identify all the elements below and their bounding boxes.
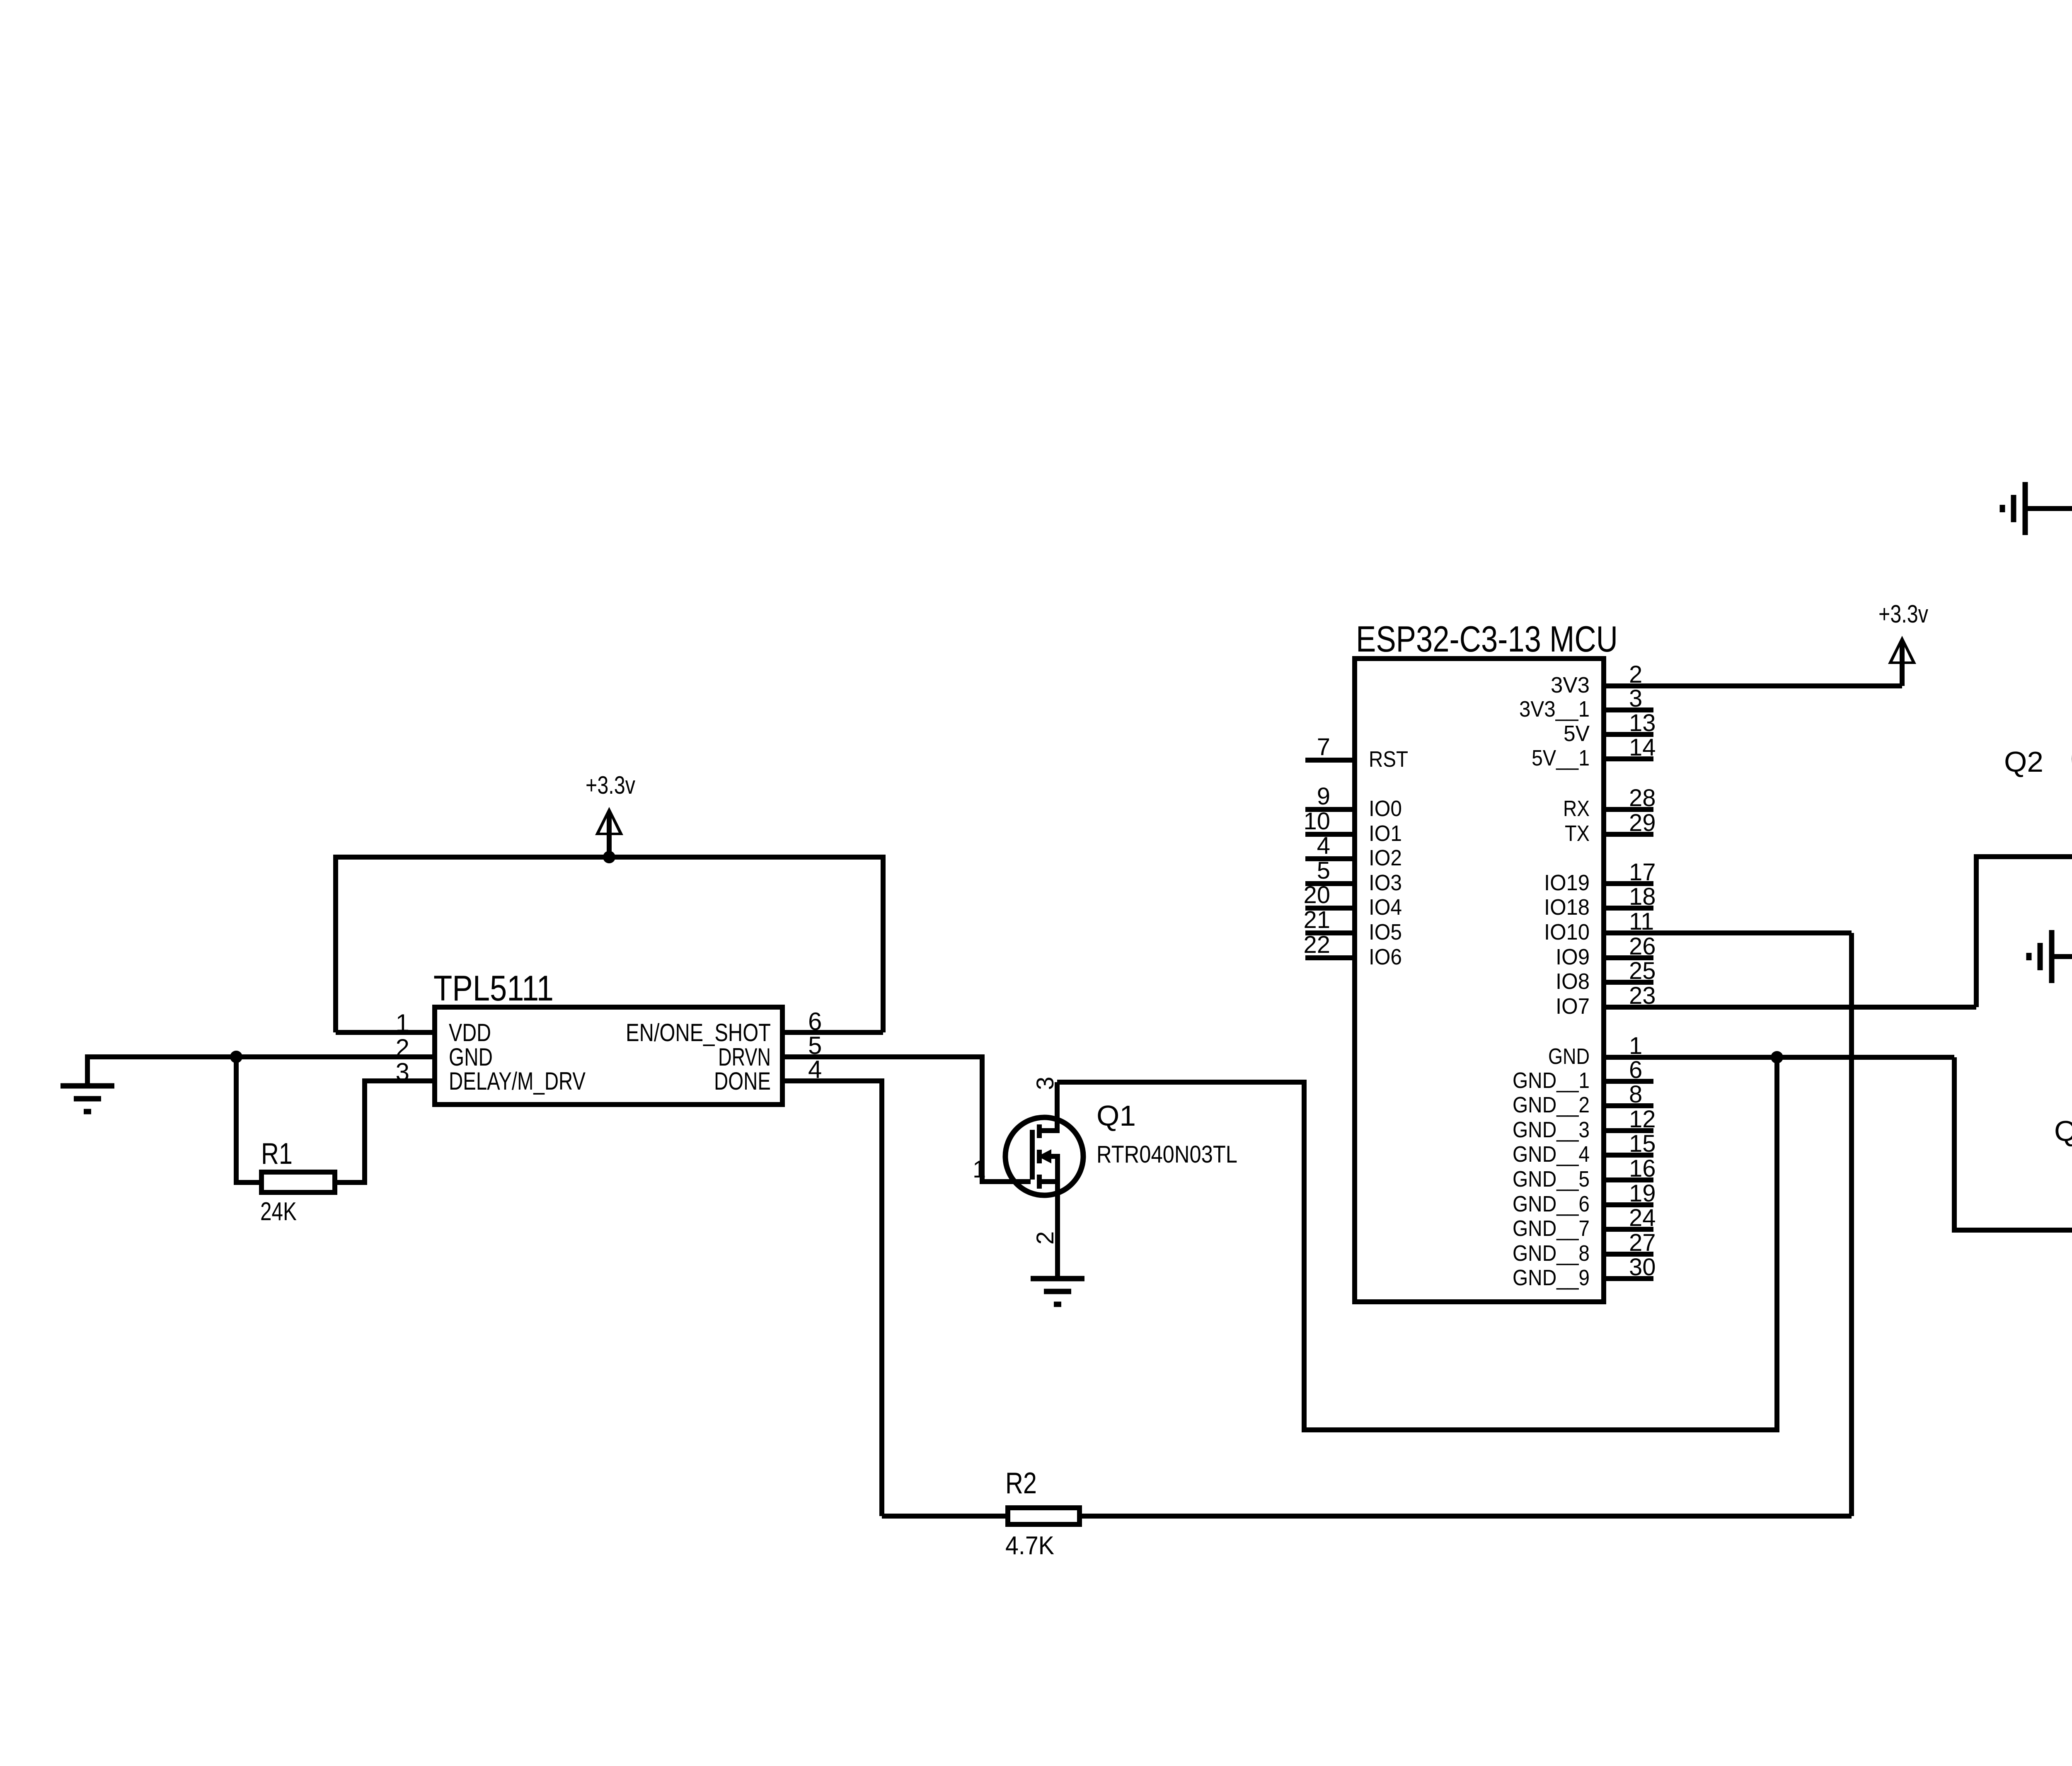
svg-text:RTR040N03TL: RTR040N03TL	[1097, 1141, 1237, 1168]
svg-text:EN/ONE_SHOT: EN/ONE_SHOT	[626, 1019, 771, 1047]
svg-text:Q3: Q3	[2054, 1115, 2072, 1147]
svg-text:14: 14	[1629, 734, 1656, 761]
svg-text:17: 17	[1629, 859, 1656, 886]
svg-text:24: 24	[1629, 1204, 1656, 1231]
svg-text:TX: TX	[1565, 821, 1590, 846]
svg-text:13: 13	[1629, 710, 1656, 736]
svg-text:1: 1	[396, 1009, 409, 1037]
svg-text:IO4: IO4	[1369, 895, 1402, 920]
svg-text:30: 30	[1629, 1254, 1656, 1281]
svg-text:GND__8: GND__8	[1513, 1241, 1590, 1266]
svg-text:IO5: IO5	[1369, 920, 1402, 945]
svg-text:GND__5: GND__5	[1513, 1167, 1590, 1192]
svg-text:6: 6	[1629, 1056, 1642, 1083]
svg-text:29: 29	[1629, 809, 1656, 836]
svg-text:2: 2	[1629, 661, 1642, 688]
svg-text:2: 2	[1032, 1231, 1059, 1245]
svg-text:24K: 24K	[260, 1197, 297, 1226]
svg-text:6: 6	[808, 1008, 822, 1035]
svg-text:28: 28	[1629, 785, 1656, 812]
svg-text:IO0: IO0	[1369, 796, 1402, 821]
svg-text:16: 16	[1629, 1155, 1656, 1182]
svg-text:GND__4: GND__4	[1513, 1142, 1590, 1167]
svg-text:5: 5	[1317, 857, 1330, 884]
svg-text:Q2: Q2	[2004, 746, 2043, 778]
svg-text:3: 3	[1032, 1077, 1059, 1090]
svg-text:R1: R1	[261, 1137, 293, 1170]
svg-text:12: 12	[1629, 1106, 1656, 1133]
svg-text:RST: RST	[1369, 747, 1408, 772]
svg-text:TPL5111: TPL5111	[433, 969, 554, 1008]
svg-text:IO7: IO7	[1556, 994, 1590, 1019]
svg-text:4.7K: 4.7K	[1005, 1531, 1054, 1560]
svg-text:21: 21	[1303, 906, 1330, 933]
svg-text:+3.3v: +3.3v	[1878, 600, 1928, 628]
svg-text:9: 9	[1317, 783, 1330, 810]
svg-text:3: 3	[396, 1058, 409, 1086]
svg-text:DONE: DONE	[714, 1067, 771, 1095]
svg-text:3: 3	[1629, 685, 1642, 712]
svg-text:GND__1: GND__1	[1513, 1068, 1590, 1093]
svg-text:2: 2	[396, 1034, 409, 1062]
svg-text:IO18: IO18	[1544, 895, 1590, 920]
svg-text:23: 23	[1629, 982, 1656, 1009]
svg-text:11: 11	[1629, 908, 1654, 935]
svg-text:IO1: IO1	[1369, 821, 1402, 846]
svg-text:27: 27	[1629, 1229, 1656, 1256]
svg-text:IO10: IO10	[1544, 920, 1590, 945]
svg-text:22: 22	[1303, 931, 1330, 958]
svg-text:IO6: IO6	[1369, 945, 1402, 969]
svg-text:15: 15	[1629, 1130, 1656, 1157]
svg-text:VDD: VDD	[449, 1019, 491, 1047]
svg-text:3V3: 3V3	[1551, 673, 1590, 698]
svg-text:1: 1	[1629, 1032, 1642, 1059]
svg-text:DELAY/M_DRV: DELAY/M_DRV	[449, 1067, 586, 1095]
svg-text:10: 10	[1303, 808, 1330, 835]
svg-text:GND__2: GND__2	[1513, 1093, 1590, 1117]
svg-text:18: 18	[1629, 883, 1656, 910]
svg-text:RX: RX	[1563, 796, 1590, 821]
svg-text:GND__9: GND__9	[1513, 1265, 1590, 1290]
svg-text:IO3: IO3	[1369, 870, 1402, 895]
svg-text:3V3__1: 3V3__1	[1519, 697, 1590, 722]
svg-text:26: 26	[1629, 933, 1656, 960]
svg-text:1: 1	[973, 1156, 986, 1183]
svg-text:GND__3: GND__3	[1513, 1117, 1590, 1142]
svg-text:8: 8	[1629, 1081, 1642, 1108]
svg-text:IO8: IO8	[1556, 969, 1590, 994]
svg-text:ESP32-C3-13 MCU: ESP32-C3-13 MCU	[1356, 618, 1618, 659]
svg-text:DRVN: DRVN	[718, 1043, 771, 1071]
svg-text:R2: R2	[1005, 1467, 1037, 1500]
svg-text:GND: GND	[449, 1043, 493, 1071]
svg-text:7: 7	[1317, 734, 1330, 761]
svg-text:IO2: IO2	[1369, 845, 1402, 870]
svg-text:19: 19	[1629, 1180, 1656, 1207]
svg-text:5V__1: 5V__1	[1532, 746, 1590, 770]
svg-text:+3.3v: +3.3v	[586, 771, 635, 799]
svg-text:5V: 5V	[1564, 721, 1590, 746]
svg-text:IO9: IO9	[1556, 945, 1590, 969]
svg-text:4: 4	[1317, 832, 1330, 859]
svg-text:GND: GND	[1548, 1044, 1590, 1069]
svg-text:20: 20	[1303, 882, 1330, 908]
svg-text:25: 25	[1629, 957, 1656, 984]
svg-text:IO19: IO19	[1544, 870, 1590, 895]
svg-text:GND__6: GND__6	[1513, 1192, 1590, 1216]
svg-text:GND__7: GND__7	[1513, 1216, 1590, 1241]
svg-text:Q1: Q1	[1097, 1100, 1136, 1132]
